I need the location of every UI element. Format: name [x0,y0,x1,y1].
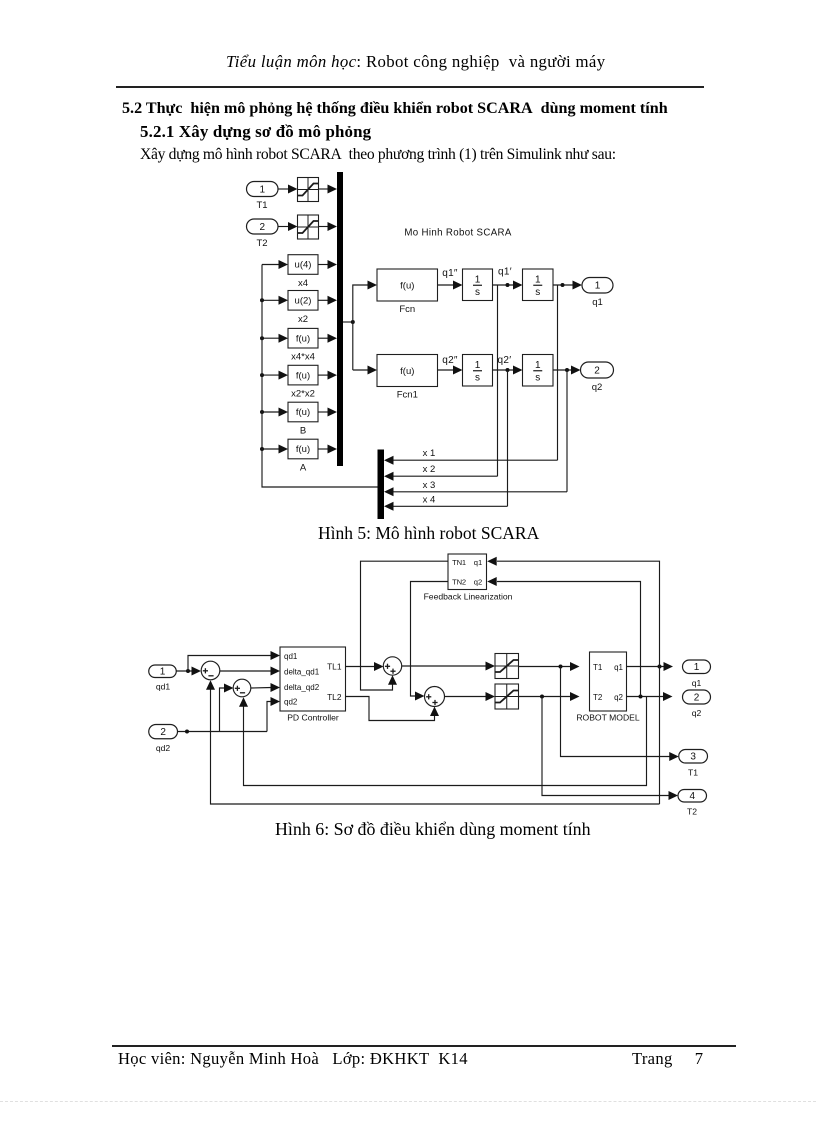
feedback wire x 3 into Demux [384,480,567,497]
wire B output to Mux [318,408,337,417]
svg-text:delta_qd2: delta_qd2 [284,683,320,692]
svg-text:delta_qd1: delta_qd1 [284,668,320,677]
wire Integrator3 to outport q2 with branch to x3 [553,366,581,492]
feeder vertical wire from Demux output [262,265,378,488]
wire sum2 to saturation [402,662,495,671]
feedback wire x 2 into Demux [384,464,498,481]
label q1d [498,267,512,278]
svg-text:T2: T2 [593,693,603,702]
wire TN1 from Feedback Linearization to sum2 [361,561,449,690]
svg-text:1: 1 [694,662,700,673]
wire q2 to outport, branch up to Feedback Linearization and down to sum1 [239,577,673,786]
wire Integrator2 to Integrator3 with branch to x4 [493,366,523,507]
wire Sum to PD delta_qd1 [220,667,280,676]
heading 5.2 [122,100,668,118]
header: course title [226,52,605,72]
svg-text:q2: q2 [614,693,623,702]
Mux bar [337,172,343,466]
wire T2 to Saturation1 [278,222,298,231]
svg-text:q1: q1 [692,678,702,688]
svg-text:2: 2 [694,692,700,703]
svg-text:qd2: qd2 [156,743,171,753]
svg-text:Feedback Linearization: Feedback Linearization [424,592,513,602]
caption figure 6 [275,819,591,840]
body paragraph [140,146,616,164]
wire feeder to x4*x4 input [260,334,288,343]
integrator1 1/s (q1 out) [523,269,554,301]
wire Integrator to Integrator1 with branch to x2 [493,281,523,477]
saturation block (row T1) [298,178,319,202]
outport 1 (q1) [582,278,613,309]
wire Fcn to Integrator [438,281,463,290]
svg-text:qd1: qd1 [284,652,298,661]
svg-text:4: 4 [689,791,695,802]
svg-text:q1: q1 [474,558,482,567]
wire Saturation to Mux input 1 [319,185,338,194]
outport 3 (T1) [679,750,708,778]
wire saturation to ROBOT MODEL T1, branch to outport T1 [519,662,679,761]
svg-text:PD Controller: PD Controller [287,713,339,723]
inport 1 (qd1) [149,665,177,692]
svg-text:T2: T2 [687,807,697,817]
selector/function block B [288,402,318,436]
outport 2 (q2) [581,362,614,393]
wire TL2 to sum3 bottom [346,697,440,721]
sum2 block (TL1 + TN1) [383,657,401,675]
svg-text:ROBOT MODEL: ROBOT MODEL [576,713,640,723]
svg-text:TL2: TL2 [327,692,342,702]
label q2d [498,355,512,366]
svg-text:2: 2 [160,727,166,738]
inport 1 (T1) [247,182,279,212]
saturation block (row T2) [298,215,319,239]
Feedback Linearization block [424,554,513,602]
wire feeder to x2*x2 input [260,371,288,380]
Demux bar [378,450,385,520]
inport 2 (qd2) [149,725,178,754]
wire Mux output branching to Fcn and Fcn1 [343,281,377,375]
wire saturation1 to ROBOT MODEL T2, branch to outport T2 [519,692,679,800]
selector/function block x2 [288,291,318,325]
ROBOT MODEL block [576,652,640,723]
footer: page number [632,1049,703,1069]
sum3 block (TL2 + TN2) [425,687,445,707]
Fcn block [377,269,438,315]
wire feeder to x2 input [260,296,288,305]
outport 2 (q2) [683,690,711,718]
wire T1 to Saturation [278,185,298,194]
footer: student name [118,1049,468,1069]
wire A output to Mux [318,445,337,454]
diagram 1: Mo Hinh Robot SCARA [0,0,816,552]
wire q1 to outport, branch up to Feedback Linearization and down to sum [206,557,673,804]
caption figure 5 [318,523,539,544]
selector/function block A [288,439,318,473]
svg-text:q2: q2 [474,578,482,587]
wire x2 output to Mux [318,296,337,305]
outport 1 (q1) [683,660,711,688]
label q2dd [442,355,458,366]
wire feeder to x4 input [262,260,288,269]
sum block (qd1 - q1) [201,661,220,680]
saturation block (T1) [495,654,519,679]
saturation1 block (T2) [495,684,519,709]
wire TL1 to sum2 [346,662,384,671]
svg-text:1: 1 [160,667,166,678]
selector/function block x4*x4 [288,328,318,362]
svg-text:T1: T1 [688,768,698,778]
svg-text:qd2: qd2 [284,697,298,706]
svg-text:TL1: TL1 [327,662,342,672]
PD Controller block [280,647,346,723]
feedback wire x 1 into Demux [384,448,558,465]
integrator 1/s (q1) [463,269,493,301]
wire Sum1 to PD delta_qd2 [251,683,280,692]
wire qd2 to Sum1 and PD qd2 input [178,684,281,734]
integrator3 1/s (q2 out) [523,355,554,387]
Fcn1 block [377,355,438,401]
svg-text:TN1: TN1 [452,558,466,567]
wire qd1 to Sum and PD qd1 input [176,651,280,676]
wire feeder to B input [260,408,288,417]
wire x4 output to Mux [318,260,337,269]
selector/function block x4 [288,255,318,289]
svg-text:q2: q2 [692,708,702,718]
wire x4*x4 output to Mux [318,334,337,343]
inport 2 (T2) [247,219,279,249]
svg-text:qd1: qd1 [156,682,171,692]
diagram 2: control scheme [0,0,816,860]
svg-text:3: 3 [690,752,696,763]
wire Integrator1 to outport q1 with branch to x1 [553,281,582,461]
feedback wire x 4 into Demux [384,494,508,511]
integrator2 1/s (q2) [463,355,493,387]
wire Saturation1 to Mux input 2 [319,222,338,231]
wire Fcn1 to Integrator2 [438,366,463,375]
selector/function block x2*x2 [288,365,318,399]
heading 5.2.1 [140,122,371,142]
wire x2*x2 output to Mux [318,371,337,380]
faint bottom dashed rule [0,1101,816,1102]
title Mo Hinh Robot SCARA [404,228,512,239]
outport 4 (T2) [678,790,707,817]
svg-text:q1: q1 [614,663,623,672]
wire feeder to A input [260,445,288,454]
sum1 block (qd2 - q2) [233,679,251,697]
wire TN2 from Feedback Linearization to sum3 [411,582,449,701]
footer rule [112,1045,736,1047]
svg-text:T1: T1 [593,663,603,672]
wire sum3 to saturation1 [445,692,496,701]
svg-text:TN2: TN2 [452,578,466,587]
header rule [116,86,704,88]
label q1dd [442,268,458,279]
